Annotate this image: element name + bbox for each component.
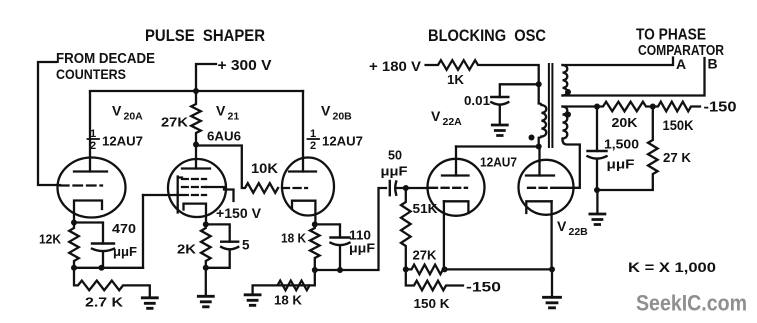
ground G4 for 0.01: [492, 125, 507, 136]
wire cathode bus: [445, 268, 552, 270]
svg-text:2.7 K: 2.7 K: [85, 295, 124, 310]
svg-text:20K: 20K: [612, 115, 639, 130]
capacitor 1500uuF: [588, 151, 607, 159]
svg-text:V: V: [557, 218, 567, 234]
svg-text:27K: 27K: [413, 248, 438, 263]
triode V22A envelope: [428, 159, 485, 216]
svg-text:22A: 22A: [443, 116, 463, 128]
grid V21 suppressor: [182, 178, 206, 180]
svg-text:μμF: μμF: [349, 241, 375, 256]
junction grid node V22A: [403, 185, 409, 191]
svg-text:μμF: μμF: [381, 164, 408, 179]
svg-text:1K: 1K: [447, 72, 465, 87]
svg-text:470: 470: [112, 221, 136, 236]
label fraction bar V20A: [88, 138, 100, 140]
plate V20B: [289, 170, 316, 172]
svg-text:5: 5: [242, 238, 250, 253]
wire secondary1 top to A: [563, 58, 674, 66]
wire cathode bus to ground: [551, 269, 553, 297]
svg-text:10K: 10K: [251, 161, 278, 176]
svg-text:18 K: 18 K: [281, 231, 307, 246]
wire V22B plate lead: [538, 147, 540, 176]
svg-text:2: 2: [310, 140, 316, 152]
junction V20A cathode node: [71, 220, 77, 226]
junction 2K bottom: [203, 265, 209, 271]
wire V20B plate lead: [302, 91, 304, 172]
junction 110uuF bottom: [337, 267, 343, 273]
cathode V20B: [292, 201, 315, 225]
wire V21 control grid lead: [143, 194, 180, 196]
svg-text:A: A: [676, 56, 686, 72]
wire V22A plate lead: [455, 147, 457, 176]
plate V22B: [526, 174, 554, 176]
resistor 18K vertical: [310, 224, 320, 270]
svg-text:V: V: [431, 108, 441, 124]
capacitor 0.01: [491, 97, 508, 105]
triode V20B envelope: [282, 158, 334, 216]
grid V20A dashed: [60, 184, 102, 186]
svg-text:21: 21: [228, 111, 240, 123]
resistor 51K: [401, 188, 411, 269]
svg-text:PULSE SHAPER: PULSE SHAPER: [145, 27, 265, 45]
svg-text:150 K: 150 K: [414, 296, 451, 311]
ground G1 for 2.7K: [142, 298, 157, 309]
junction 20K 150K 27K: [650, 104, 656, 110]
wire V22A cathode lead: [443, 201, 445, 269]
wire node to V21 grid: [142, 195, 144, 268]
svg-text:SeekIC.com: SeekIC.com: [636, 291, 747, 316]
transformer T1 secondary winding 2: [563, 107, 568, 139]
svg-text:12AU7: 12AU7: [480, 155, 517, 170]
phase dot primary: [529, 135, 535, 141]
transformer T1 secondary winding 1: [563, 65, 568, 96]
wire 50uuF to V22A grid: [397, 187, 428, 189]
phase dot secondary 1: [565, 89, 571, 95]
svg-text:12AU7: 12AU7: [322, 135, 363, 149]
resistor 12K: [69, 223, 79, 268]
svg-text:22B: 22B: [569, 226, 589, 238]
grid V22B dashed: [528, 187, 560, 189]
svg-text:12K: 12K: [39, 232, 62, 247]
svg-text:BLOCKING OSC: BLOCKING OSC: [428, 27, 546, 45]
svg-text:V: V: [112, 103, 122, 119]
svg-text:12AU7: 12AU7: [102, 135, 143, 149]
junction sec2 20K 1500uuF: [594, 104, 600, 110]
wire 0.01 branch: [500, 84, 539, 97]
wire 2K node to ground: [205, 268, 207, 296]
wire +300V bus: [90, 90, 303, 92]
svg-text:μμF: μμF: [113, 244, 137, 259]
svg-text:V: V: [216, 103, 226, 119]
cathode V22A: [444, 201, 469, 213]
plate V21: [182, 167, 210, 169]
resistor 27K right: [597, 107, 658, 191]
svg-text:20B: 20B: [333, 111, 353, 123]
svg-text:18 K: 18 K: [274, 293, 303, 308]
resistor 27K: [191, 91, 201, 145]
junction 51K 27K 150K: [403, 266, 409, 272]
cathode V22B: [526, 201, 551, 213]
junction 1K 0.01 primary: [536, 81, 542, 87]
svg-text:COUNTERS: COUNTERS: [56, 66, 126, 82]
junction 18K bottom: [312, 267, 318, 273]
wire V20A bottom node: [74, 267, 143, 269]
triode V20A envelope: [58, 158, 126, 218]
svg-text:+ 300 V: + 300 V: [218, 58, 272, 74]
wire V22A plate to primary: [456, 145, 539, 147]
junction 470uuF bottom: [99, 265, 105, 271]
junction 27K V22A cathode: [442, 266, 448, 272]
grid V21 control: [182, 194, 206, 196]
ground G6 right node: [590, 214, 605, 225]
ground G5 for V22B cathode: [544, 297, 561, 308]
ground G3 for 18K: [245, 295, 260, 306]
svg-text:+150 V: +150 V: [216, 205, 262, 221]
wire input bracket from decade counters: [38, 62, 60, 185]
svg-text:TO PHASE: TO PHASE: [636, 27, 706, 44]
wire V20B cathode to 110uuF: [315, 224, 340, 237]
wire 1500uuF top lead: [596, 107, 598, 152]
svg-text:27K: 27K: [161, 115, 189, 130]
transformer T1 core: [549, 64, 553, 147]
svg-text:150K: 150K: [663, 118, 694, 133]
cathode V20A: [74, 201, 102, 223]
wire 470uuF bottom lead: [102, 252, 104, 268]
ground G2 for V21 cathode: [198, 296, 213, 307]
wire cap5 bottom lead: [206, 250, 230, 268]
junction ground node right: [594, 187, 600, 193]
resistor 2.7K: [74, 268, 150, 298]
wire V21 cathode to cap5: [206, 224, 230, 241]
junction 27K V21 plate 10K: [193, 142, 199, 148]
junction 12K bottom: [71, 265, 77, 271]
capacitor 470uuF: [92, 244, 114, 252]
svg-text:0.01: 0.01: [464, 93, 490, 108]
triode V22B envelope: [519, 160, 574, 215]
svg-text:K = X 1,000: K = X 1,000: [628, 260, 716, 275]
svg-text:-150: -150: [466, 279, 501, 295]
svg-text:2K: 2K: [177, 242, 197, 257]
wire suppressor tie V21: [178, 177, 182, 213]
wire bottom node to coupling cap: [315, 188, 386, 270]
wire 110uuF bottom lead: [339, 246, 341, 270]
cathode V21: [184, 204, 207, 225]
wire secondary2 top lead: [563, 102, 701, 112]
svg-text:6AU6: 6AU6: [207, 130, 241, 144]
svg-text:50: 50: [388, 148, 402, 163]
plate V22A: [442, 174, 469, 176]
junction V20B cathode node: [312, 221, 318, 227]
phase dot secondary 2: [565, 112, 571, 118]
junction plates primary: [536, 144, 542, 150]
wire V21 plate to 10K: [196, 146, 278, 193]
wire V20A plate lead: [89, 92, 91, 172]
label fraction bar V20B: [308, 138, 320, 140]
grid V20B dashed: [282, 187, 307, 189]
svg-text:1,500: 1,500: [604, 137, 639, 152]
wire V20A cathode to 470uuF: [74, 223, 103, 244]
svg-text:B: B: [708, 56, 718, 72]
svg-text:V: V: [321, 103, 331, 119]
resistor 18K horizontal: [253, 270, 315, 295]
capacitor 5: [221, 242, 238, 250]
svg-text:-150: -150: [704, 100, 737, 116]
wire +180V feed: [426, 60, 539, 84]
wire node to ground G6: [596, 190, 598, 214]
svg-text:27 K: 27 K: [663, 150, 692, 165]
wire V21 plate lead: [195, 145, 197, 169]
resistor 150K bottom: [406, 269, 463, 290]
capacitor 50uuF: [390, 181, 396, 195]
svg-text:20A: 20A: [124, 111, 144, 123]
wire 1500uuF bottom lead: [596, 160, 598, 191]
wire V22B grid to secondary2: [560, 140, 580, 188]
junction bus and 27K: [193, 88, 199, 94]
resistor 2K: [201, 224, 211, 267]
wire secondary1 bottom to B: [563, 58, 705, 96]
pentode V21 envelope: [168, 159, 226, 217]
wire V22B cathode lead: [550, 201, 552, 269]
svg-text:μμF: μμF: [607, 157, 635, 172]
svg-text:FROM DECADE: FROM DECADE: [56, 51, 155, 67]
junction V22B cathode ground: [549, 266, 555, 272]
plate V20A: [74, 170, 107, 172]
wire V21 screen to +150V: [206, 187, 234, 201]
wire primary top lead and winding: [539, 84, 547, 146]
grid V21 screen: [182, 186, 206, 188]
capacitor 110uuF: [331, 238, 350, 246]
resistor 27K bottom: [406, 265, 445, 275]
wire 0.01 to ground: [499, 106, 501, 125]
junction V21 cathode node: [203, 221, 209, 227]
svg-text:+ 180 V: + 180 V: [369, 59, 421, 74]
svg-text:51K: 51K: [413, 201, 439, 216]
grid V22A dashed: [430, 187, 467, 189]
wire +300V stub: [196, 64, 216, 91]
